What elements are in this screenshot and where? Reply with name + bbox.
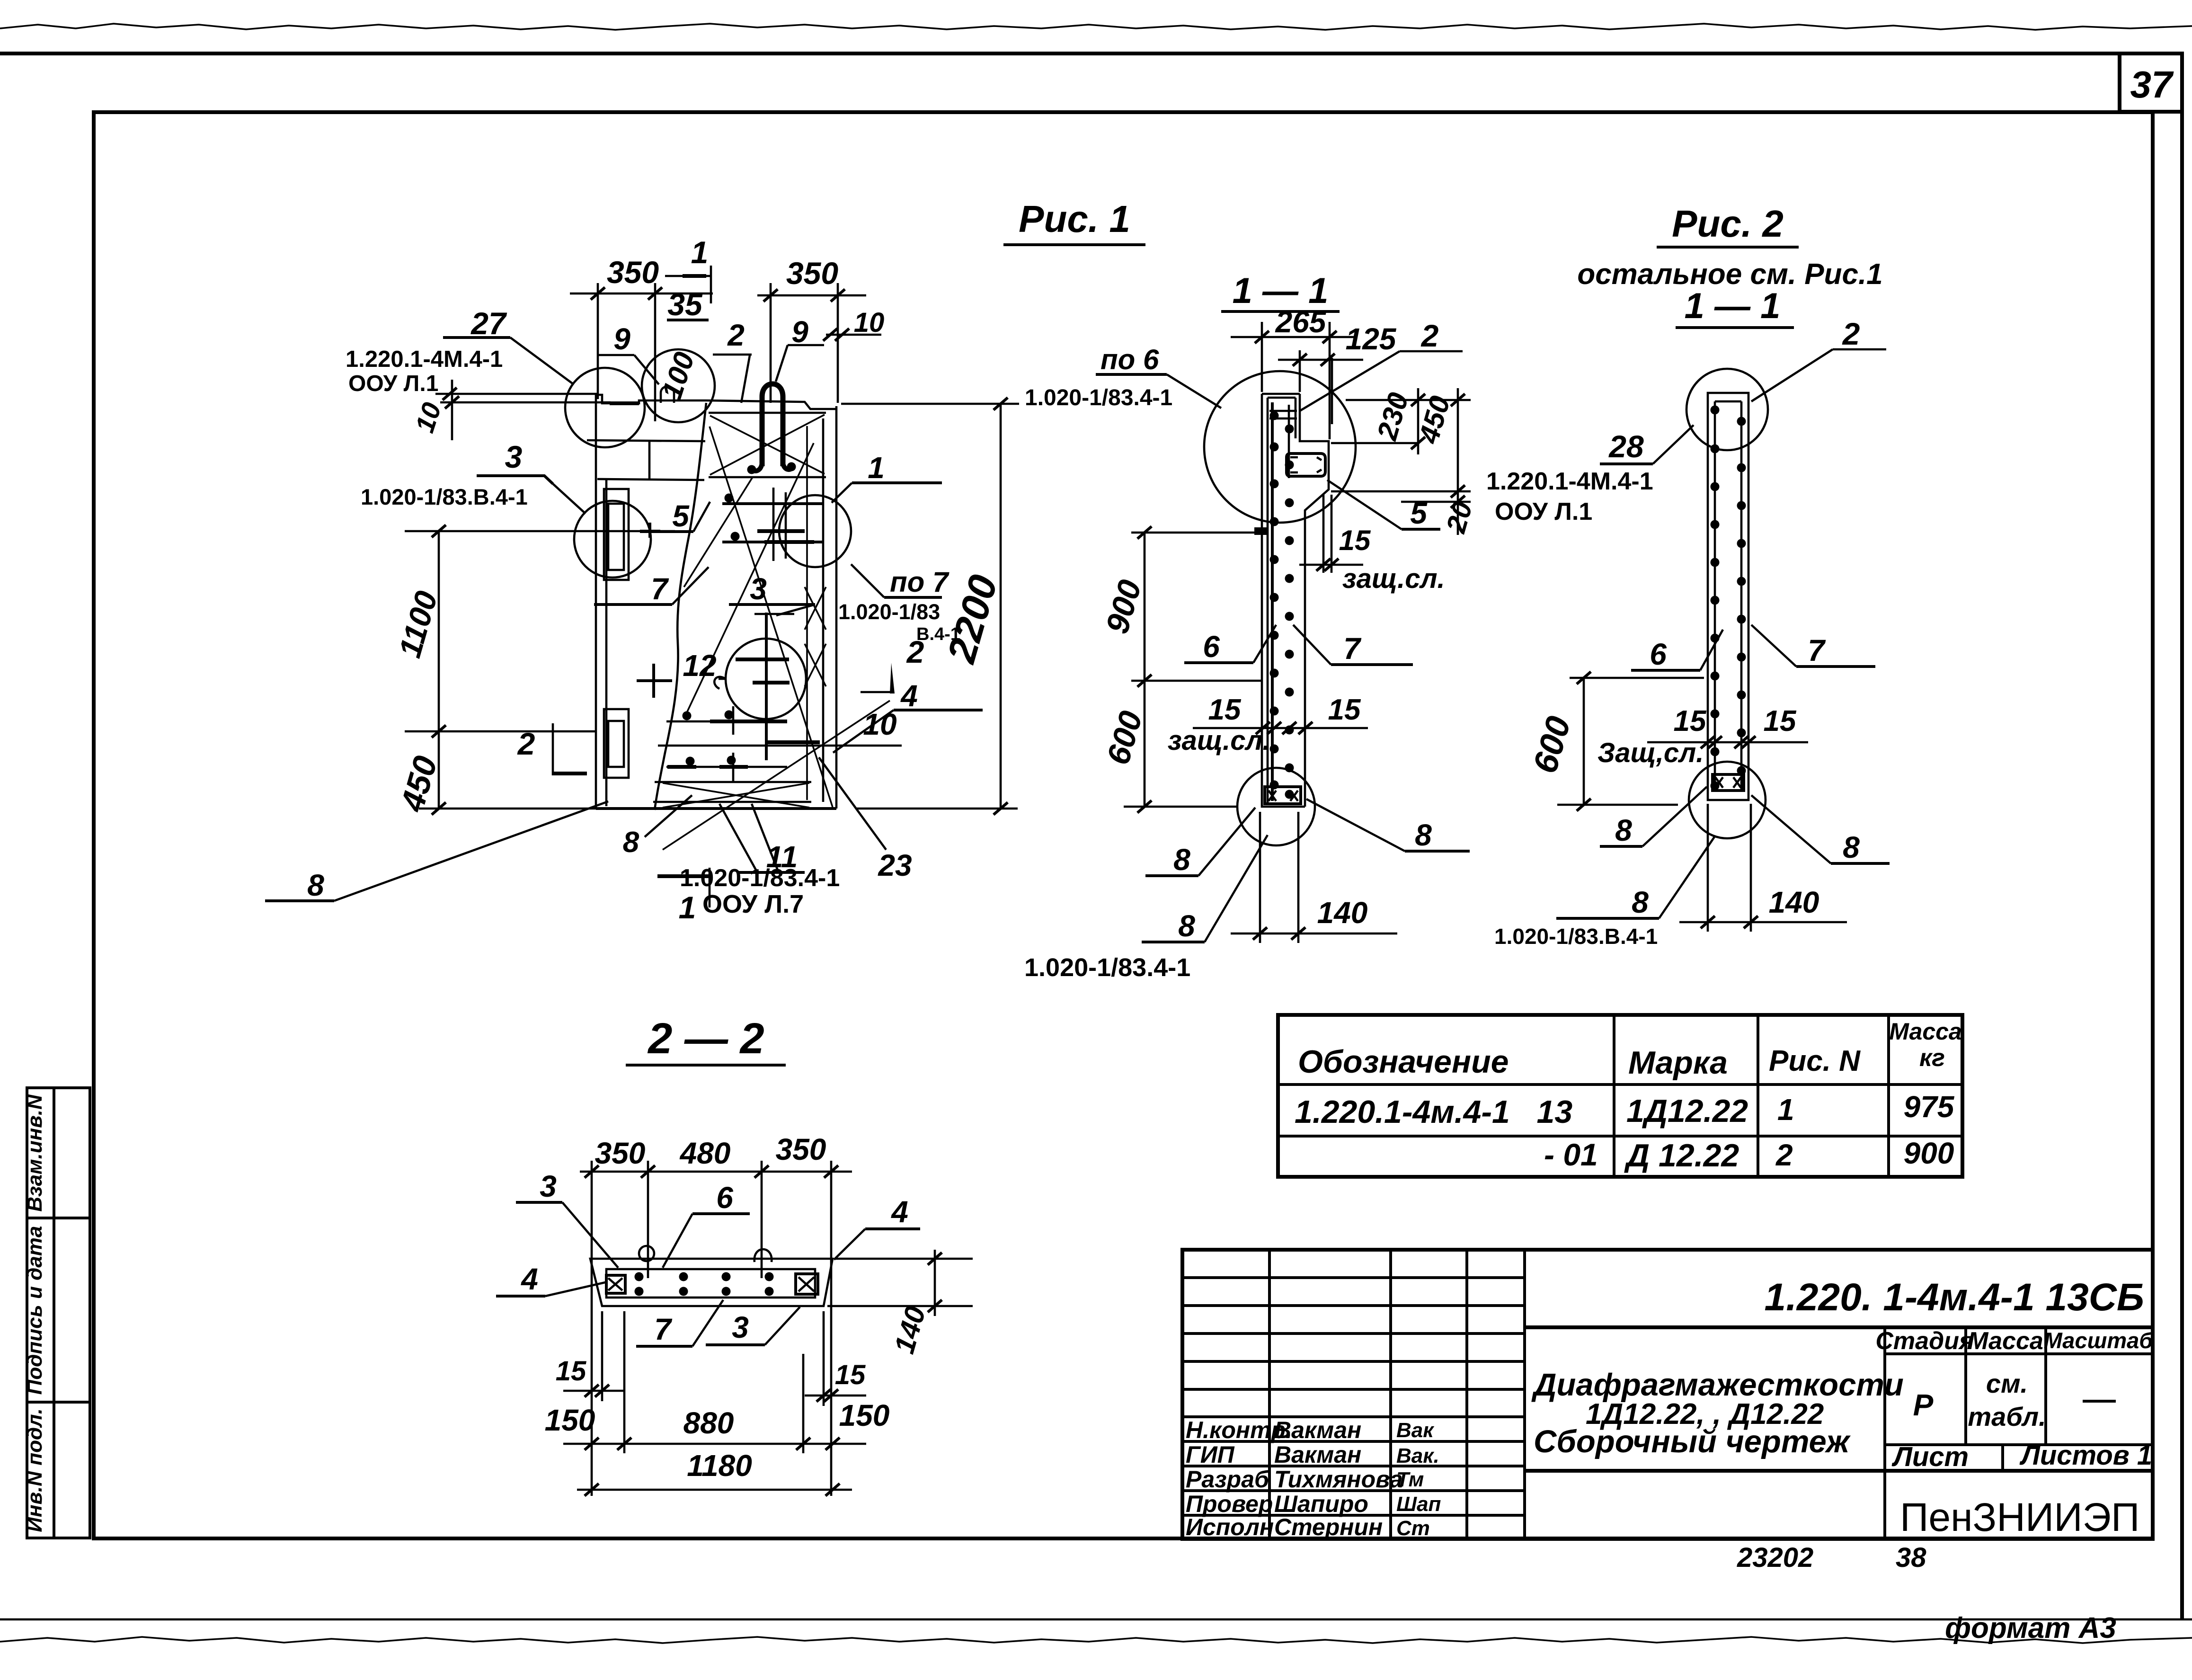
svg-text:2: 2 bbox=[1775, 1138, 1793, 1172]
svg-text:1.220.1-4М.4-1: 1.220.1-4М.4-1 bbox=[346, 347, 503, 372]
svg-text:150: 150 bbox=[545, 1403, 595, 1437]
svg-text:23: 23 bbox=[878, 848, 912, 882]
svg-text:Масса: Масса bbox=[1889, 1018, 1962, 1045]
svg-text:10: 10 bbox=[863, 707, 896, 741]
svg-text:Вакман: Вакман bbox=[1274, 1441, 1361, 1468]
svg-text:Р: Р bbox=[1913, 1388, 1934, 1422]
svg-text:480: 480 bbox=[679, 1136, 731, 1170]
svg-text:Обозначение: Обозначение bbox=[1298, 1044, 1509, 1080]
svg-text:350: 350 bbox=[607, 255, 659, 290]
svg-text:8: 8 bbox=[623, 826, 639, 859]
svg-text:табл.: табл. bbox=[1968, 1402, 2046, 1431]
svg-text:ООУ Л.7: ООУ Л.7 bbox=[702, 890, 804, 918]
svg-text:7: 7 bbox=[651, 572, 669, 606]
svg-text:6: 6 bbox=[716, 1181, 733, 1215]
svg-text:по 6: по 6 bbox=[1100, 344, 1159, 375]
svg-text:15: 15 bbox=[835, 1360, 866, 1390]
svg-text:ООУ Л.1: ООУ Л.1 bbox=[348, 371, 438, 396]
svg-text:Д 12.22: Д 12.22 bbox=[1624, 1138, 1739, 1173]
svg-text:2: 2 bbox=[1420, 318, 1439, 353]
svg-text:5: 5 bbox=[1410, 496, 1428, 530]
svg-text:23202: 23202 bbox=[1737, 1542, 1813, 1573]
svg-text:ГИП: ГИП bbox=[1186, 1441, 1235, 1468]
svg-text:Стадия: Стадия bbox=[1875, 1327, 1973, 1355]
svg-text:140: 140 bbox=[1769, 885, 1819, 919]
svg-text:350: 350 bbox=[786, 256, 838, 291]
svg-text:1.220.1-4М.4-1: 1.220.1-4М.4-1 bbox=[1486, 468, 1653, 495]
svg-text:7: 7 bbox=[1343, 631, 1362, 666]
svg-text:1Д12.22: 1Д12.22 bbox=[1626, 1093, 1748, 1129]
svg-text:защ.сл.: защ.сл. bbox=[1342, 563, 1445, 594]
svg-text:150: 150 bbox=[839, 1398, 890, 1432]
svg-text:15: 15 bbox=[1339, 524, 1371, 556]
svg-text:12: 12 bbox=[683, 649, 716, 683]
svg-text:Шап: Шап bbox=[1396, 1493, 1441, 1516]
svg-text:Вакман: Вакман bbox=[1274, 1417, 1361, 1443]
svg-text:140: 140 bbox=[1317, 896, 1368, 930]
svg-text:1.020-1/83.4-1: 1.020-1/83.4-1 bbox=[1024, 953, 1190, 982]
svg-text:37: 37 bbox=[2130, 63, 2174, 106]
svg-text:6: 6 bbox=[1203, 630, 1220, 664]
svg-text:формат А3: формат А3 bbox=[1945, 1612, 2116, 1644]
svg-text:по 7: по 7 bbox=[890, 566, 950, 598]
svg-text:125: 125 bbox=[1346, 322, 1397, 356]
svg-text:8: 8 bbox=[1632, 885, 1649, 919]
svg-text:27: 27 bbox=[470, 306, 507, 341]
svg-text:Взам.инв.N: Взам.инв.N bbox=[23, 1094, 46, 1212]
svg-text:4: 4 bbox=[890, 1195, 908, 1229]
svg-text:38: 38 bbox=[1896, 1542, 1926, 1573]
svg-text:Листов 1: Листов 1 bbox=[2019, 1440, 2152, 1471]
svg-text:8: 8 bbox=[307, 868, 324, 902]
svg-text:1.020-1/83.4-1: 1.020-1/83.4-1 bbox=[1025, 385, 1172, 410]
svg-text:см.: см. bbox=[1986, 1369, 2028, 1398]
svg-text:Рис. N: Рис. N bbox=[1769, 1045, 1861, 1077]
svg-text:1.220. 1-4м.4-1 13СБ: 1.220. 1-4м.4-1 13СБ bbox=[1764, 1276, 2144, 1319]
svg-text:Диафрагмажесткости: Диафрагмажесткости bbox=[1531, 1367, 1904, 1403]
svg-text:защ.сл.: защ.сл. bbox=[1168, 725, 1270, 756]
svg-text:15: 15 bbox=[1208, 693, 1242, 726]
svg-text:Защ,сл.: Защ,сл. bbox=[1597, 738, 1704, 768]
svg-text:2: 2 bbox=[517, 726, 535, 761]
svg-text:1: 1 bbox=[868, 451, 885, 485]
svg-text:8: 8 bbox=[1415, 818, 1432, 852]
svg-text:Рис. 1: Рис. 1 bbox=[1019, 198, 1130, 240]
svg-text:880: 880 bbox=[683, 1406, 734, 1440]
svg-text:350: 350 bbox=[776, 1132, 826, 1166]
svg-text:9: 9 bbox=[791, 315, 808, 349]
svg-text:7: 7 bbox=[654, 1312, 673, 1346]
svg-text:ПенЗНИИЭП: ПенЗНИИЭП bbox=[1900, 1495, 2139, 1539]
svg-text:8: 8 bbox=[1178, 909, 1195, 943]
svg-text:8: 8 bbox=[1173, 843, 1190, 877]
svg-text:2 — 2: 2 — 2 bbox=[647, 1014, 764, 1063]
svg-text:Марка: Марка bbox=[1628, 1045, 1728, 1081]
svg-text:15: 15 bbox=[1328, 693, 1361, 726]
svg-text:Провер: Провер bbox=[1186, 1491, 1273, 1517]
svg-text:1180: 1180 bbox=[687, 1449, 752, 1483]
svg-text:Инв.N подл.: Инв.N подл. bbox=[23, 1408, 46, 1532]
svg-text:7: 7 bbox=[1808, 633, 1826, 667]
svg-text:Масса: Масса bbox=[1968, 1327, 2043, 1355]
svg-text:975: 975 bbox=[1904, 1090, 1955, 1124]
svg-text:- 01: - 01 bbox=[1544, 1137, 1598, 1172]
svg-text:15: 15 bbox=[1764, 705, 1797, 738]
svg-text:Тм: Тм bbox=[1396, 1468, 1424, 1491]
svg-text:Лист: Лист bbox=[1891, 1441, 1969, 1472]
svg-text:Вак.: Вак. bbox=[1396, 1444, 1439, 1467]
svg-text:8: 8 bbox=[1843, 830, 1860, 864]
svg-text:1.020-1/83.В.4-1: 1.020-1/83.В.4-1 bbox=[1494, 924, 1658, 949]
svg-text:2: 2 bbox=[906, 634, 924, 669]
svg-text:265: 265 bbox=[1275, 305, 1327, 339]
svg-text:4: 4 bbox=[900, 679, 918, 713]
svg-text:15: 15 bbox=[1674, 705, 1707, 738]
svg-text:2: 2 bbox=[1842, 316, 1860, 351]
svg-text:900: 900 bbox=[1904, 1136, 1954, 1170]
svg-text:Рис. 2: Рис. 2 bbox=[1672, 203, 1784, 245]
svg-text:1 — 1: 1 — 1 bbox=[1685, 286, 1781, 326]
svg-text:5: 5 bbox=[672, 499, 690, 533]
svg-text:Подпись и дата: Подпись и дата bbox=[23, 1226, 46, 1395]
svg-text:35: 35 bbox=[667, 287, 703, 322]
svg-text:Шапиро: Шапиро bbox=[1274, 1491, 1368, 1517]
svg-text:3: 3 bbox=[732, 1310, 749, 1344]
svg-text:8: 8 bbox=[1615, 813, 1632, 847]
svg-text:Масштаб: Масштаб bbox=[2044, 1328, 2154, 1353]
svg-text:3: 3 bbox=[505, 439, 523, 474]
svg-text:1.020-1/83: 1.020-1/83 bbox=[838, 600, 940, 624]
svg-text:350: 350 bbox=[595, 1136, 646, 1170]
svg-text:1: 1 bbox=[1777, 1093, 1794, 1127]
svg-text:15: 15 bbox=[556, 1356, 586, 1387]
svg-text:Исполн: Исполн bbox=[1186, 1514, 1274, 1540]
svg-text:28: 28 bbox=[1608, 429, 1644, 464]
svg-text:Вак: Вак bbox=[1396, 1419, 1435, 1442]
svg-text:Ст: Ст bbox=[1396, 1517, 1430, 1540]
svg-text:кг: кг bbox=[1919, 1044, 1945, 1072]
svg-text:1: 1 bbox=[679, 890, 696, 925]
svg-text:1.020-1/83.В.4-1: 1.020-1/83.В.4-1 bbox=[361, 484, 528, 509]
svg-text:2: 2 bbox=[727, 318, 745, 352]
svg-text:Сборочный чертеж: Сборочный чертеж bbox=[1534, 1424, 1851, 1459]
svg-text:6: 6 bbox=[1650, 637, 1667, 671]
svg-text:Разраб: Разраб bbox=[1186, 1466, 1270, 1493]
svg-text:3: 3 bbox=[750, 572, 767, 606]
svg-text:4: 4 bbox=[520, 1262, 538, 1296]
svg-text:1.020-1/83.4-1: 1.020-1/83.4-1 bbox=[680, 864, 840, 892]
svg-text:10: 10 bbox=[854, 307, 885, 338]
svg-text:1: 1 bbox=[691, 235, 709, 270]
svg-text:Стернин: Стернин bbox=[1274, 1514, 1383, 1540]
svg-text:1.220.1-4м.4-1 13: 1.220.1-4м.4-1 13 bbox=[1295, 1094, 1572, 1130]
svg-text:3: 3 bbox=[540, 1169, 557, 1203]
svg-text:9: 9 bbox=[613, 322, 630, 356]
svg-text:ООУ Л.1: ООУ Л.1 bbox=[1495, 498, 1592, 525]
svg-text:Тихмянова: Тихмянова bbox=[1274, 1466, 1403, 1493]
